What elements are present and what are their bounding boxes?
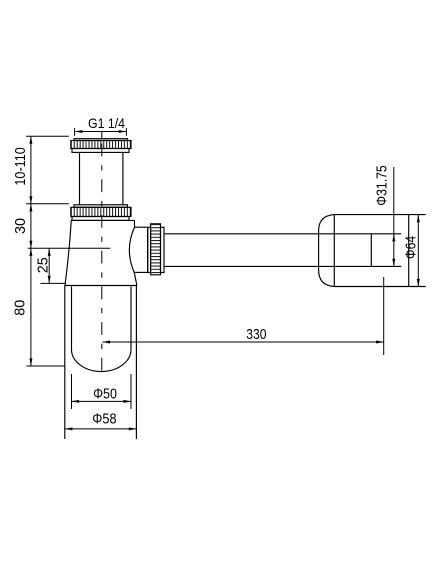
- cup outer right wall: [135, 286, 137, 440]
- body top edge: [71, 219, 134, 221]
- wall flange rounded cap: [319, 215, 335, 287]
- dimension 30: top arrow: [29, 204, 32, 212]
- outlet tube end cap: [370, 234, 372, 267]
- outlet boss flange bottom edge: [134, 271, 147, 273]
- svg-text:Φ58: Φ58: [92, 411, 116, 428]
- dimension 10-110: top arrow: [29, 136, 32, 144]
- inlet tube right wall: [122, 152, 124, 204]
- dimension phi50: left extension: [71, 374, 73, 409]
- cup inner bottom arc: [72, 350, 132, 372]
- dimension 330: right extension line: [383, 277, 385, 355]
- wall flange bottom edge: [334, 286, 425, 288]
- svg-text:80: 80: [12, 300, 29, 316]
- vertical centerline dashed part: [101, 144, 103, 372]
- dimension phi31.75: top arrow: [392, 234, 395, 242]
- dimension G1 1/4: left tick: [74, 128, 76, 136]
- wall flange top edge: [334, 214, 425, 216]
- dimension 30: dim line: [30, 204, 32, 249]
- dimension G1 1/4: left arrow: [75, 130, 83, 133]
- svg-text:Φ50: Φ50: [93, 386, 117, 403]
- dimension G1 1/4: right tick: [125, 128, 127, 136]
- dimension 25: dim line: [48, 248, 50, 283]
- svg-text:Φ64: Φ64: [403, 236, 420, 259]
- dimension phi31.75: bottom arrow: [392, 259, 395, 267]
- body bottom step line: [65, 285, 137, 287]
- dimension G1 1/4: right arrow: [119, 130, 127, 133]
- outlet tube bottom wall: [164, 265, 401, 267]
- dimension 330: right arrow: [376, 341, 384, 344]
- inlet tube left wall: [79, 152, 81, 204]
- dimension 330: left arrow: [102, 341, 110, 344]
- wall flange right edge: [408, 215, 410, 287]
- dimension 10-110: bottom arrow: [29, 196, 32, 204]
- outlet tube top wall: [164, 233, 401, 235]
- cup inner left wall: [71, 287, 73, 350]
- dimension 80: extension line bottom: [26, 365, 65, 367]
- dimension 25: bottom arrow: [48, 276, 51, 284]
- dimension 80: bottom arrow: [29, 358, 32, 366]
- dimension phi50: left arrow: [72, 400, 80, 403]
- outlet boss flange top edge: [135, 226, 148, 228]
- wall flange cap joint line: [333, 215, 335, 287]
- vertical centerline (dashed): [101, 131, 103, 138]
- dimension phi64: dim line: [417, 215, 419, 287]
- dimension 10-110: extension line top: [26, 135, 69, 137]
- svg-text:30: 30: [12, 218, 29, 234]
- svg-text:G1 1/4: G1 1/4: [88, 115, 125, 131]
- body right shoulder step: [134, 220, 136, 227]
- cup outer left wall: [64, 286, 66, 440]
- dimension phi64: bottom arrow: [417, 279, 420, 287]
- top nut: knurled band: [71, 141, 131, 149]
- cup inner right wall: [130, 287, 132, 350]
- lower nut: knurled band: [71, 207, 131, 216]
- top nut: bottom band: [72, 149, 129, 153]
- body left side: [65, 221, 71, 286]
- dimension phi50: right arrow: [123, 400, 131, 403]
- dimension 25: extension line bottom: [40, 282, 65, 284]
- dimension G1 1/4: line: [76, 131, 127, 133]
- outlet nut right rim: [161, 227, 165, 272]
- dimension phi58: left arrow: [65, 427, 73, 430]
- dimension 30: bottom arrow: [29, 241, 32, 249]
- outlet centerline extension: [28, 247, 111, 249]
- dimension 330: dim line: [102, 341, 383, 343]
- svg-text:10-110: 10-110: [12, 147, 29, 186]
- dimension phi58: right arrow: [129, 427, 137, 430]
- dimension phi64: top arrow: [417, 215, 420, 223]
- svg-text:330: 330: [246, 326, 266, 343]
- outlet nut left rim: [148, 227, 151, 272]
- lower nut: top band: [74, 205, 128, 208]
- dimension phi50: dim line: [72, 400, 132, 402]
- dimension 80: top arrow: [29, 248, 32, 256]
- outlet nut knurled ring: [151, 224, 161, 275]
- body right lower edge: [134, 273, 137, 286]
- dimension phi58: dim line: [65, 428, 137, 430]
- top nut: top band: [74, 139, 128, 141]
- dimension 10-110: extension line bottom: [26, 203, 69, 205]
- outlet boss flange right edge: [147, 227, 149, 272]
- dimension phi50: right extension: [130, 374, 132, 409]
- dimension 10-110: dim line: [30, 136, 32, 204]
- dimension 80: dim line: [30, 248, 32, 366]
- svg-text:Φ31.75: Φ31.75: [374, 165, 391, 205]
- dimension 25: top arrow: [48, 248, 51, 256]
- body right side intersection arc: [129, 227, 134, 272]
- dimension phi31.75: leader/dim line: [393, 167, 395, 266]
- lower nut: bottom band: [72, 217, 129, 221]
